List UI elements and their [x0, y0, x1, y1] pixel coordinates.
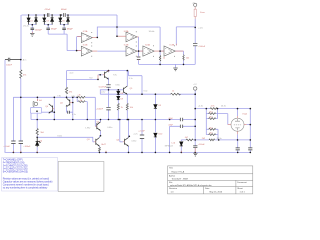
- capacitor C7 U2 out: [137, 57, 141, 61]
- svg-text:+2.2uF: +2.2uF: [138, 131, 145, 133]
- svg-text:4.2v: 4.2v: [70, 73, 75, 75]
- svg-text:26.3v: 26.3v: [221, 105, 227, 107]
- svg-text:Sheet: Sheet: [237, 187, 243, 190]
- diode D6: [67, 15, 70, 25]
- wire A-in node column: [20, 60, 22, 153]
- wire x142 cap col: [141, 120, 143, 153]
- wire x66.5 column: [66, 71, 68, 98]
- svg-text:2k: 2k: [80, 100, 82, 102]
- wire bottom bus: [5, 151, 251, 154]
- resistor R3 U3B out 10k: [183, 55, 184, 61]
- svg-text:Resistor values are exact (i.e: Resistor values are exact (i.e. printed …: [3, 178, 49, 181]
- svg-text:TecknikZiT . MZiE: TecknikZiT . MZiE: [172, 179, 189, 181]
- resistor R4 x37 5k6: [36, 129, 38, 136]
- svg-text:1000pF: 1000pF: [35, 29, 43, 31]
- svg-text:4k7: 4k7: [185, 137, 189, 139]
- svg-text:+100uF: +100uF: [198, 144, 206, 146]
- transistor Q2: [95, 122, 100, 131]
- svg-text:680pF: 680pF: [67, 28, 74, 30]
- svg-text:Led: Led: [39, 140, 42, 142]
- wire x108.5 down to cap2: [108, 90, 110, 120]
- wire chain to U1B: [67, 34, 81, 51]
- svg-text:47uF: 47uF: [168, 118, 173, 120]
- wire +12 column top: [194, 19, 196, 64]
- wire x195.2 cap-gnd: [194, 140, 196, 153]
- svg-text:so any numbering here is compl: so any numbering here is completely arbi…: [3, 187, 48, 190]
- capacitor C13 x108.5: [106, 107, 110, 110]
- empty notes rectangle: [58, 162, 104, 192]
- svg-text:4.7k: 4.7k: [211, 106, 216, 108]
- tube V1: [231, 118, 244, 131]
- svg-text:Q4: Q4: [60, 102, 64, 104]
- svg-text:680pF: 680pF: [51, 28, 58, 30]
- LED D7 x37: [36, 137, 41, 147]
- wire Q2 base col x95.3: [95, 97, 97, 126]
- svg-text:Q3: Q3: [87, 139, 91, 141]
- gray voltage labels: [23, 2, 227, 147]
- svg-text:F=TREATMENT (ON): F=TREATMENT (ON): [3, 161, 25, 164]
- svg-text:Led: Led: [172, 142, 175, 144]
- svg-text:100nF: 100nF: [6, 64, 13, 66]
- resistor R7 Q3 emit: [99, 147, 101, 151]
- wire top rail: [22, 14, 118, 16]
- title block: [168, 166, 253, 194]
- svg-text:S=SCHMIDT (D1,D3,D5): S=SCHMIDT (D1,D3,D5): [3, 168, 28, 170]
- svg-text:S=SCHMIDT (D2,D4,D5): S=SCHMIDT (D2,D4,D5): [3, 165, 28, 167]
- svg-text:IC3A: IC3A: [145, 43, 150, 46]
- ground opamp bus: [173, 68, 177, 71]
- wire y126.3: [170, 125, 196, 127]
- op-amp U1A: [81, 32, 92, 43]
- wire U1A input branch: [77, 37, 82, 51]
- svg-text:0.66v: 0.66v: [107, 127, 113, 129]
- svg-text:IC2A: IC2A: [124, 30, 129, 33]
- svg-text:aphorist/Diode BTL-ANGde NP1-A: aphorist/Diode BTL-ANGde NP1-A schematic…: [170, 184, 212, 187]
- capacitor C11 series x68-69.5: [68, 111, 70, 114]
- wire U2A out down: [138, 37, 140, 65]
- capacitor C6 input: [5, 58, 21, 62]
- wire x195.2 power col: [194, 94, 196, 140]
- svg-text:Components weren't numbered in: Components weren't numbered in circuit b…: [3, 184, 50, 187]
- transistor QB: [123, 138, 129, 147]
- wire ladder main y108.6: [195, 108, 250, 110]
- wire y51 opamp row: [139, 50, 184, 52]
- switch box S1: [30, 108, 41, 114]
- capacitor C18 x195.2: [193, 146, 197, 148]
- svg-text:+100uF: +100uF: [23, 146, 31, 148]
- svg-text:1.0: 1.0: [171, 191, 175, 193]
- svg-text:+2k: +2k: [77, 95, 80, 97]
- svg-text:D9: D9: [121, 98, 124, 100]
- svg-text:MPSA13: MPSA13: [165, 144, 174, 147]
- diode D1: [27, 15, 30, 25]
- wire diode column x118.3: [117, 90, 119, 120]
- resistor R18a y97.3: [78, 96, 85, 98]
- transistor QL: [49, 104, 55, 113]
- wire U3B out resistor col: [183, 51, 185, 64]
- svg-text:T=CHANNEL (OFF): T=CHANNEL (OFF): [3, 158, 23, 161]
- wire +12 circle stub: [194, 90, 196, 94]
- wire box left leg: [30, 113, 32, 119]
- wire cap237 col: [237, 140, 239, 153]
- resistor R18b y101.6: [78, 101, 85, 103]
- wire tube left: [218, 114, 228, 125]
- transistor Q3: [94, 138, 99, 147]
- svg-text:+100nF: +100nF: [96, 108, 104, 110]
- wire ladder row stubs: [206, 114, 218, 135]
- svg-text:IC3B: IC3B: [170, 44, 175, 46]
- op-amp U2B: [126, 46, 137, 57]
- svg-text:Q5: Q5: [130, 88, 134, 90]
- wire y137.3 to Q3: [37, 137, 94, 142]
- transistor QR: [124, 86, 128, 95]
- svg-text:V1-A: V1-A: [242, 112, 247, 115]
- svg-text:0.047uF: 0.047uF: [99, 86, 107, 88]
- svg-text:-0.5v: -0.5v: [101, 92, 105, 94]
- svg-text:47k: 47k: [23, 75, 27, 77]
- op-amp U3A: [143, 45, 154, 57]
- svg-text:+1.0uF: +1.0uF: [3, 146, 10, 148]
- wire x169.6 col: [169, 126, 171, 152]
- wire R94 bus: [100, 93, 195, 95]
- wire Q1 base feed: [98, 74, 103, 76]
- capacitor C19 x237.7: [236, 148, 240, 150]
- capacitor C1 series: [47, 13, 49, 17]
- diode D4: [51, 15, 54, 25]
- red pin ticks: [13, 32, 195, 153]
- capacitor C16 series y126.3: [180, 125, 182, 128]
- svg-text:10k: 10k: [130, 107, 133, 109]
- wire vout y139.9: [181, 139, 250, 141]
- svg-text:1k: 1k: [172, 91, 175, 93]
- red value labels: [3, 9, 247, 148]
- wire Q3 emit-res: [99, 146, 101, 152]
- wire Q1 coll/emit: [108, 71, 110, 90]
- svg-text:47k: 47k: [69, 92, 73, 94]
- diode D9 x155.4 top: [154, 105, 157, 109]
- svg-text:Author: Author: [169, 175, 175, 178]
- wire cap column x13: [12, 97, 14, 152]
- diode D3: [43, 15, 46, 25]
- svg-text:Repair VTL-A: Repair VTL-A: [172, 171, 185, 174]
- op-amp U3B: [164, 45, 175, 57]
- resistor R13 ladder: [209, 118, 216, 120]
- svg-text:IC1A: IC1A: [83, 30, 88, 33]
- wire R1 bus y64.4: [139, 63, 196, 65]
- svg-text:7v65: 7v65: [115, 85, 120, 87]
- diode D10 x155.4 bottom: [154, 133, 157, 137]
- capacitor C17 x145: [140, 135, 144, 139]
- ground main: [193, 152, 197, 156]
- svg-text:0.66v: 0.66v: [132, 140, 137, 142]
- svg-text:0.1u: 0.1u: [72, 114, 76, 116]
- wire left bus: [4, 60, 6, 153]
- transistor Q1: [103, 71, 109, 80]
- wire QR coll emit column: [127, 71, 128, 153]
- resistor R1 input 47k: [20, 70, 22, 78]
- wire QB coll/emit: [128, 136, 131, 147]
- notes box: [2, 158, 58, 191]
- capacitor C12 Q1 emit: [106, 85, 110, 87]
- capacitor C5 shunt stage3: [62, 28, 66, 29]
- svg-text:A in: A in: [23, 59, 27, 62]
- wire bus mid y119.5: [31, 119, 180, 121]
- wire gnd stub: [175, 64, 177, 67]
- svg-text:Q4: Q4: [45, 106, 49, 108]
- capacitor C8 +12 rail: [193, 43, 197, 46]
- wire right edge col: [249, 109, 251, 153]
- svg-text:D3: D3: [47, 20, 49, 22]
- svg-text:9.0v: 9.0v: [144, 90, 149, 92]
- wire x72.8 column: [72, 97, 74, 119]
- svg-text:9.1v: 9.1v: [129, 78, 133, 80]
- wire R18b branch: [77, 97, 87, 119]
- wire Q2 coll/emit: [100, 120, 101, 138]
- wire U3A out resistor col: [159, 51, 161, 64]
- svg-text:Title: Title: [169, 167, 174, 170]
- svg-text:+4.3v: +4.3v: [198, 105, 204, 107]
- fuse F1: [194, 7, 196, 19]
- wire QR base row y89.8: [109, 89, 124, 91]
- capacitor C4 shunt stage2: [46, 28, 50, 29]
- resistor R8 bus94: [171, 93, 181, 95]
- svg-text:Revision: Revision: [169, 188, 178, 190]
- svg-text:+12v: +12v: [133, 134, 137, 136]
- net wiring: [5, 15, 251, 152]
- wire Q1 emit loop: [100, 90, 108, 94]
- svg-text:Q6: Q6: [116, 140, 120, 142]
- ground clipper stage1: [30, 32, 34, 37]
- wire rail down to U2A: [116, 15, 118, 36]
- capacitor C20 x250.3: [248, 148, 252, 150]
- power port +12 circle: [194, 3, 197, 6]
- svg-text:1.98v: 1.98v: [85, 128, 91, 130]
- wire QM emit and hcap: [67, 107, 73, 112]
- svg-text:IC2B: IC2B: [124, 45, 129, 47]
- wire tube cathode stub: [237, 134, 239, 140]
- power port +12 circle2: [194, 87, 197, 90]
- wire vplus rail y26.9: [176, 27, 195, 46]
- wire bus119 right seg: [183, 119, 195, 121]
- svg-text:+12v: +12v: [198, 27, 204, 29]
- resistor R9 vout left 4k7: [186, 139, 193, 141]
- wire clipper stage bottoms: [31, 25, 33, 32]
- LED D11 x181.3: [180, 142, 183, 146]
- resistor R12 ladder: [209, 113, 216, 115]
- diode D8a x118.3: [117, 91, 120, 94]
- svg-text:10kHz: 10kHz: [149, 31, 155, 33]
- wire x54.3: [53, 97, 55, 119]
- svg-text:May 15, 2016: May 15, 2016: [210, 191, 223, 193]
- svg-text:7.8v: 7.8v: [57, 95, 61, 97]
- pin red Q1 base feed: [97, 75, 99, 80]
- svg-text:+12: +12: [193, 84, 197, 86]
- capacitor C3 shunt stage1: [31, 28, 35, 29]
- resistor R5 x66.5: [65, 87, 67, 94]
- capacitor C2 series: [64, 13, 65, 17]
- svg-text:1k: 1k: [121, 107, 123, 109]
- svg-text:Vol: Vol: [39, 100, 42, 102]
- wire jack column: [36, 97, 38, 152]
- resistor R15 ladder: [209, 134, 216, 136]
- svg-text:D1: D1: [31, 20, 33, 22]
- svg-text:10k: 10k: [186, 57, 190, 59]
- wire QB base col: [120, 120, 123, 142]
- svg-text:7.8v: 7.8v: [113, 75, 118, 77]
- wire U1A out up-over: [97, 27, 160, 51]
- pin stubs opamps (red): [77, 36, 183, 51]
- svg-text:Document: Document: [237, 181, 247, 184]
- svg-text:IC1B: IC1B: [83, 45, 88, 47]
- svg-text:E=OVERDRIVE (D4+D5): E=OVERDRIVE (D4+D5): [3, 171, 28, 173]
- op-amp U1B: [81, 46, 92, 57]
- resistor R2 U3A out 1k: [159, 55, 160, 61]
- svg-text:470nF: 470nF: [45, 9, 52, 11]
- svg-text:47uF: 47uF: [168, 125, 173, 127]
- svg-text:Date: Date: [205, 187, 210, 190]
- svg-text:File: File: [169, 182, 173, 184]
- resistor R16 x118.3: [117, 103, 119, 110]
- svg-text:Capacitor values are as measur: Capacitor values are as measured (when p…: [3, 181, 53, 184]
- resistor R14 ladder: [209, 128, 216, 130]
- wire ladder rails: [206, 109, 218, 140]
- capacitor C10 x20.8: [19, 141, 23, 144]
- diode D8b x118.3: [117, 96, 120, 99]
- diode D5: [59, 15, 62, 25]
- wire mid rail y79.4: [67, 78, 99, 80]
- wire box out: [42, 111, 55, 113]
- svg-text:1 of 1: 1 of 1: [240, 191, 246, 193]
- wire diode chain x155.4: [154, 94, 156, 152]
- svg-text:7.8k: 7.8k: [71, 96, 75, 98]
- capacitor C15 series bus119: [180, 118, 182, 121]
- diode D2: [35, 15, 38, 25]
- svg-text:680nF: 680nF: [61, 9, 68, 11]
- resistor R10 vout right 2k2: [209, 139, 215, 141]
- svg-text:1k: 1k: [163, 57, 166, 59]
- svg-text:Fuse: Fuse: [200, 12, 205, 14]
- svg-text:5k6: 5k6: [41, 132, 45, 134]
- op-amp U2A: [126, 31, 137, 42]
- svg-text:D9: D9: [159, 105, 162, 107]
- svg-text:D10: D10: [159, 134, 164, 136]
- svg-text:+100uF: +100uF: [198, 46, 206, 48]
- wire rail mid y70.6: [67, 71, 143, 95]
- wire input column: [20, 15, 22, 60]
- resistor R17 x127.3: [126, 103, 128, 110]
- svg-text:0k47: 0k47: [101, 144, 106, 146]
- clipper diode network: [27, 15, 69, 25]
- wire tube top: [238, 109, 251, 125]
- wire y=97.3 horizontal: [13, 96, 95, 98]
- jack J1 input: [33, 99, 38, 106]
- capacitor C9 x13: [11, 141, 15, 144]
- wire clipper pair bars: [29, 24, 68, 26]
- svg-text:D5: D5: [63, 20, 65, 22]
- wire U1B out to U2B: [97, 50, 126, 52]
- wire LED181 col: [180, 140, 182, 153]
- svg-text:(71.2k: (71.2k: [23, 26, 30, 28]
- resistor R11 ladder: [210, 108, 217, 110]
- transistor QM: [66, 98, 73, 107]
